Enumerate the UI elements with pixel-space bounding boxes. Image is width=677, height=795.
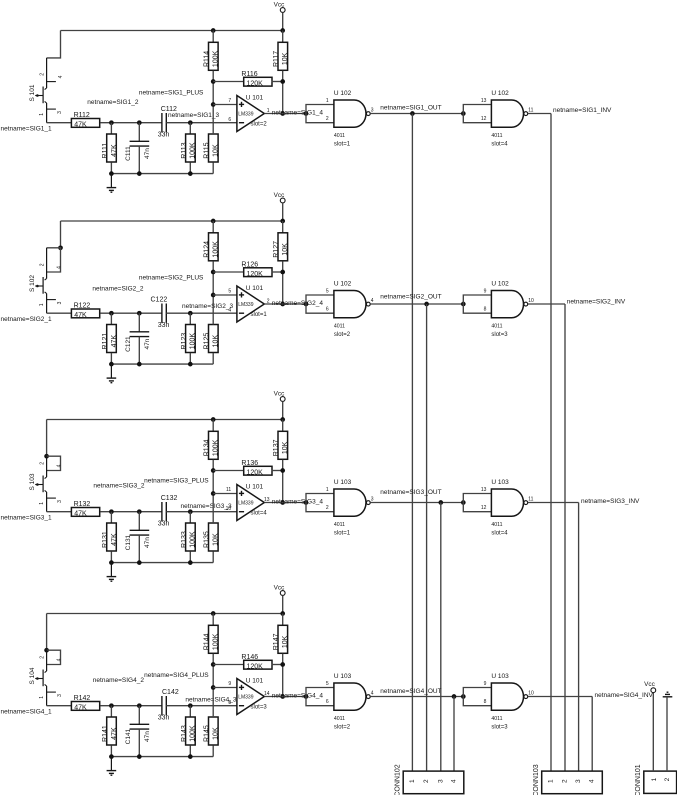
svg-text:netname=SIG2_PLUS: netname=SIG2_PLUS [139, 275, 204, 282]
svg-text:R141: R141 [102, 725, 109, 742]
wire [272, 664, 283, 666]
resistor R134 [204, 431, 220, 459]
junction [58, 245, 63, 250]
svg-text:100K: 100K [190, 142, 197, 159]
net SIG1_2 wire [100, 122, 162, 124]
svg-text:3: 3 [57, 301, 63, 304]
svg-text:R127: R127 [273, 241, 280, 258]
svg-text:netname=SIG3_INV: netname=SIG3_INV [581, 498, 640, 505]
svg-text:12: 12 [481, 116, 487, 122]
svg-text:10: 10 [226, 506, 232, 512]
svg-text:9: 9 [228, 681, 231, 687]
svg-text:LM339: LM339 [238, 694, 254, 700]
wire [213, 81, 243, 83]
wire [189, 706, 191, 717]
junction [280, 302, 285, 307]
net SIG3_INV vertical wire [578, 503, 580, 772]
svg-text:47K: 47K [74, 511, 87, 518]
svg-text:11: 11 [226, 487, 231, 493]
wire divider [212, 654, 214, 717]
svg-text:3: 3 [57, 111, 63, 114]
junction [137, 754, 142, 759]
wire pin2-pin4 loop [47, 248, 61, 272]
wire [212, 31, 214, 43]
junction [137, 120, 142, 125]
svg-text:netname=SIG4_PLUS: netname=SIG4_PLUS [144, 672, 209, 679]
svg-text:slot=2: slot=2 [334, 725, 351, 731]
wire pull-up [282, 261, 284, 304]
net SIG4_2 wire [100, 705, 162, 707]
svg-text:R115: R115 [204, 142, 211, 158]
svg-text:1: 1 [39, 303, 45, 306]
svg-text:2: 2 [664, 777, 671, 781]
svg-text:10: 10 [528, 298, 534, 304]
junction [211, 79, 216, 84]
power Vcc rail row3 [274, 391, 285, 420]
net SIG2_OUT vertical wire [426, 304, 428, 771]
svg-text:R111: R111 [102, 143, 109, 159]
nand gate U 103 slot=3 [491, 673, 527, 731]
resistor R116 [241, 71, 272, 88]
ground (flipped) [663, 692, 673, 697]
resistor R143 [181, 717, 197, 745]
svg-text:13: 13 [481, 98, 487, 104]
svg-text:2: 2 [40, 656, 46, 659]
svg-text:netname=SIG3_1: netname=SIG3_1 [1, 515, 53, 522]
svg-text:R116: R116 [241, 71, 257, 78]
svg-text:1: 1 [548, 779, 555, 783]
resistor R133 [181, 523, 197, 551]
svg-text:33n: 33n [158, 132, 170, 139]
svg-text:C141: C141 [125, 728, 132, 744]
svg-text:R143: R143 [181, 725, 188, 742]
svg-text:4011: 4011 [334, 323, 345, 329]
wire [110, 162, 112, 173]
ground [107, 757, 117, 776]
resistor R113 [181, 134, 197, 162]
power Vcc CONN101 [644, 681, 656, 692]
wire gate input split [463, 105, 491, 123]
svg-text:R147: R147 [273, 633, 280, 650]
net SIG2_OUT wire [370, 303, 463, 305]
wire rail to switch [60, 221, 62, 248]
svg-text:R145: R145 [204, 725, 211, 742]
svg-text:R114: R114 [204, 51, 211, 67]
junction [109, 703, 114, 708]
wire [272, 271, 283, 273]
svg-text:C131: C131 [125, 534, 132, 550]
svg-text:10K: 10K [213, 533, 220, 546]
capacitor C132 [158, 495, 178, 527]
wire [189, 353, 191, 364]
wire [110, 123, 112, 134]
wire Vcc top rail [61, 30, 283, 32]
svg-text:S 101: S 101 [29, 84, 36, 101]
svg-text:47K: 47K [74, 705, 87, 712]
svg-text:4011: 4011 [491, 522, 502, 528]
svg-text:3: 3 [437, 779, 444, 783]
svg-text:U 102: U 102 [491, 90, 509, 97]
junction [211, 611, 216, 616]
svg-text:4: 4 [371, 298, 374, 304]
svg-text:R135: R135 [204, 531, 211, 548]
op-amp U101 LM339 [237, 678, 267, 715]
op-amp U101 LM339 [237, 95, 267, 132]
junction [109, 120, 114, 125]
junction [452, 694, 457, 699]
junction [410, 111, 415, 116]
net SIG2_INV wire [528, 303, 565, 305]
resistor R145 [204, 717, 220, 745]
junction [211, 662, 216, 667]
wire gate input split [463, 688, 491, 706]
svg-text:R124: R124 [204, 241, 211, 258]
svg-text:netname=SIG1_1: netname=SIG1_1 [1, 126, 53, 133]
svg-text:LM339: LM339 [238, 302, 254, 308]
svg-text:4011: 4011 [334, 522, 345, 528]
net SIG4_OUT wire [370, 696, 463, 698]
svg-text:120K: 120K [247, 663, 264, 670]
svg-text:120K: 120K [247, 469, 264, 476]
svg-text:C122: C122 [151, 297, 168, 304]
wire [110, 706, 112, 717]
svg-text:33n: 33n [158, 521, 170, 528]
svg-text:netname=SIG3_3: netname=SIG3_3 [181, 503, 233, 510]
net SIG2_INV vertical wire [564, 304, 566, 771]
switch S102 [29, 248, 63, 313]
resistor R147 [273, 625, 289, 653]
svg-text:U 102: U 102 [491, 281, 509, 288]
op-amp U101 LM339 [237, 484, 267, 521]
wire gate input split [463, 494, 491, 512]
svg-text:U 101: U 101 [246, 285, 264, 292]
resistor R135 [204, 523, 220, 551]
svg-text:netname=SIG2_4: netname=SIG2_4 [272, 300, 324, 307]
junction [304, 302, 309, 307]
net SIG1_PLUS wire [213, 104, 237, 106]
wire [652, 693, 654, 772]
junction [211, 219, 216, 224]
svg-text:netname=SIG3_OUT: netname=SIG3_OUT [380, 489, 441, 496]
net SIG1_OUT vertical wire [411, 114, 413, 772]
wire pull-up [282, 460, 284, 503]
resistor R115 [204, 134, 220, 162]
svg-text:netname=SIG1_INV: netname=SIG1_INV [553, 107, 612, 114]
resistor R111 [102, 134, 118, 162]
capacitor C141 [125, 706, 151, 757]
wire [282, 221, 284, 233]
svg-text:4: 4 [371, 691, 374, 697]
power Vcc rail row4 [274, 585, 285, 614]
wire pin2-pin4 loop [47, 650, 61, 664]
svg-text:2: 2 [40, 73, 46, 76]
connector CONN101 [635, 764, 677, 795]
svg-text:CONN103: CONN103 [533, 764, 540, 795]
junction [280, 270, 285, 275]
svg-text:netname=SIG3_2: netname=SIG3_2 [93, 483, 145, 490]
svg-text:netname=SIG2_3: netname=SIG2_3 [182, 303, 234, 310]
wire divider [212, 460, 214, 523]
wire [212, 221, 214, 233]
svg-text:CONN102: CONN102 [395, 764, 402, 795]
svg-text:100K: 100K [213, 241, 220, 258]
svg-text:S 103: S 103 [29, 473, 36, 490]
svg-text:3: 3 [371, 497, 374, 503]
svg-text:10K: 10K [213, 727, 220, 740]
svg-text:U 103: U 103 [491, 673, 509, 680]
svg-text:33n: 33n [158, 322, 170, 329]
svg-text:10: 10 [528, 691, 534, 697]
svg-text:8: 8 [228, 700, 231, 706]
svg-text:47K: 47K [111, 335, 118, 348]
wire [213, 664, 243, 666]
ground [107, 364, 117, 383]
svg-text:R146: R146 [241, 654, 258, 661]
svg-text:netname=SIG4_4: netname=SIG4_4 [272, 692, 324, 699]
junction [461, 500, 466, 505]
svg-text:C142: C142 [162, 689, 179, 696]
svg-text:2: 2 [326, 505, 329, 511]
nand gate U 102 slot=4 [491, 90, 527, 148]
power Vcc rail row2 [274, 192, 285, 221]
svg-text:4: 4 [56, 658, 62, 661]
wire pull-up [282, 71, 284, 114]
net SIG3_PLUS wire [213, 493, 237, 495]
svg-text:U 102: U 102 [334, 90, 352, 97]
junction [304, 694, 309, 699]
junction [188, 509, 193, 514]
svg-text:120K: 120K [247, 80, 264, 87]
wire [272, 470, 283, 472]
svg-text:netname=SIG2_1: netname=SIG2_1 [1, 316, 53, 323]
svg-text:1: 1 [326, 98, 329, 104]
svg-text:9: 9 [484, 681, 487, 687]
svg-text:4: 4 [58, 75, 64, 78]
resistor R136 [241, 460, 272, 477]
net SIG4_INV vertical wire [591, 697, 593, 772]
resistor R137 [273, 431, 289, 459]
net SIG2_2 wire [100, 312, 162, 314]
svg-text:slot=3: slot=3 [491, 725, 508, 731]
resistor R141 [102, 717, 118, 745]
wire gate input split [463, 295, 491, 313]
net SIG2_3 wire [166, 312, 237, 314]
wire [110, 353, 112, 364]
svg-text:10K: 10K [282, 635, 289, 648]
svg-text:1: 1 [409, 779, 416, 783]
svg-text:netname=SIG1_3: netname=SIG1_3 [168, 112, 220, 119]
svg-text:netname=SIG2_INV: netname=SIG2_INV [567, 299, 626, 306]
wire [213, 271, 243, 273]
svg-text:netname=SIG3_4: netname=SIG3_4 [272, 498, 324, 505]
svg-text:47n: 47n [144, 731, 151, 742]
switch S104 [29, 650, 63, 706]
svg-text:5: 5 [326, 681, 329, 687]
svg-text:11: 11 [528, 108, 533, 114]
wire [110, 745, 112, 756]
svg-text:8: 8 [484, 306, 487, 312]
net SIG1_3 wire [166, 122, 237, 124]
wire pull-up [282, 654, 284, 697]
wire [272, 81, 283, 83]
junction [188, 171, 193, 176]
svg-text:R131: R131 [102, 531, 109, 548]
svg-text:4: 4 [589, 779, 596, 783]
svg-text:6: 6 [326, 699, 329, 705]
svg-text:S 102: S 102 [29, 275, 36, 292]
svg-text:slot=1: slot=1 [334, 142, 351, 148]
svg-text:C111: C111 [125, 146, 132, 161]
resistor R131 [102, 523, 118, 551]
svg-text:8: 8 [484, 699, 487, 705]
junction [211, 270, 216, 275]
wire ground rail [111, 173, 213, 175]
svg-text:4011: 4011 [491, 716, 502, 722]
svg-text:4: 4 [56, 266, 62, 269]
net SIG1_INV vertical wire [550, 114, 552, 772]
svg-text:2: 2 [40, 462, 46, 465]
svg-text:U 101: U 101 [246, 484, 264, 491]
capacitor C112 [158, 106, 177, 138]
svg-text:C121: C121 [125, 336, 132, 352]
svg-text:2: 2 [40, 263, 46, 266]
junction [137, 703, 142, 708]
svg-text:47n: 47n [144, 148, 151, 159]
junction [44, 648, 49, 653]
wire [110, 512, 112, 523]
junction [280, 111, 285, 116]
svg-text:R112: R112 [74, 112, 90, 119]
svg-text:R142: R142 [74, 695, 91, 702]
svg-text:13: 13 [481, 487, 487, 493]
junction [109, 754, 114, 759]
svg-text:U 101: U 101 [246, 678, 264, 685]
svg-text:9: 9 [484, 288, 487, 294]
wire divider [212, 261, 214, 324]
wire gate input split [306, 295, 334, 313]
svg-text:R137: R137 [273, 439, 280, 456]
wire [212, 614, 214, 626]
junction [461, 694, 466, 699]
net SIG1_4 wire [264, 113, 306, 115]
junction [188, 362, 193, 367]
wire ground rail [111, 363, 213, 365]
junction [280, 611, 285, 616]
connector CONN103 [533, 764, 602, 795]
nand gate U 102 slot=1 [334, 90, 370, 148]
capacitor C121 [125, 313, 151, 364]
svg-text:10K: 10K [282, 243, 289, 256]
svg-text:3: 3 [371, 108, 374, 114]
svg-text:33n: 33n [158, 715, 170, 722]
junction [188, 120, 193, 125]
wire [189, 512, 191, 523]
svg-text:3: 3 [575, 779, 582, 783]
svg-text:10K: 10K [282, 441, 289, 454]
svg-text:4: 4 [228, 307, 231, 313]
junction [211, 293, 216, 298]
svg-text:netname=SIG2_OUT: netname=SIG2_OUT [380, 294, 441, 301]
svg-text:2: 2 [423, 779, 430, 783]
net SIG4_1 wire [47, 705, 71, 707]
svg-text:R133: R133 [181, 531, 188, 548]
junction [109, 509, 114, 514]
svg-text:slot=4: slot=4 [491, 142, 508, 148]
svg-text:6: 6 [228, 117, 231, 123]
svg-text:12: 12 [481, 505, 487, 511]
wire Vcc top rail [47, 419, 283, 421]
net SIG3_4 wire [264, 502, 306, 504]
nand gate U 102 slot=2 [334, 281, 370, 339]
svg-text:netname=SIG4_2: netname=SIG4_2 [93, 677, 145, 684]
svg-text:netname=SIG4_OUT: netname=SIG4_OUT [380, 688, 441, 695]
svg-text:slot=1: slot=1 [251, 312, 268, 318]
junction [461, 302, 466, 307]
svg-text:4: 4 [56, 464, 62, 467]
svg-text:100K: 100K [213, 50, 220, 67]
junction [438, 500, 443, 505]
junction [211, 685, 216, 690]
resistor R125 [204, 325, 220, 353]
junction [280, 219, 285, 224]
wire gate input split [306, 688, 334, 706]
net SIG4_3 wire [166, 705, 237, 707]
junction [188, 560, 193, 565]
svg-text:3: 3 [57, 694, 63, 697]
svg-text:netname=SIG4_INV: netname=SIG4_INV [595, 692, 654, 699]
svg-text:netname=SIG1_2: netname=SIG1_2 [87, 99, 139, 106]
net SIG4_4 wire [264, 696, 306, 698]
svg-text:3: 3 [57, 500, 63, 503]
wire [282, 31, 284, 43]
wire [110, 551, 112, 562]
net SIG1_OUT wire [370, 113, 463, 115]
svg-text:R136: R136 [241, 460, 258, 467]
junction [188, 703, 193, 708]
junction [211, 28, 216, 33]
svg-text:100K: 100K [213, 633, 220, 650]
wire [189, 123, 191, 134]
junction [188, 311, 193, 316]
wire [212, 420, 214, 432]
wire rail to switch [46, 420, 48, 457]
svg-text:R132: R132 [74, 501, 91, 508]
capacitor C142 [158, 689, 179, 721]
capacitor C122 [151, 297, 170, 329]
svg-text:47n: 47n [144, 537, 151, 548]
net SIG3_OUT vertical wire [440, 503, 442, 772]
net SIG3_OUT wire [370, 502, 463, 504]
svg-text:R125: R125 [204, 333, 211, 350]
net SIG3_3 wire [166, 511, 237, 513]
svg-text:100K: 100K [213, 439, 220, 456]
junction [211, 468, 216, 473]
svg-text:U 103: U 103 [334, 673, 352, 680]
junction [304, 500, 309, 505]
wire Vcc top rail [47, 613, 283, 615]
resistor R121 [102, 325, 118, 353]
svg-text:netname=SIG1_4: netname=SIG1_4 [272, 109, 324, 116]
wire pin2-pin4 loop [47, 456, 61, 470]
svg-text:4011: 4011 [334, 133, 345, 139]
nand gate U 102 slot=3 [491, 281, 527, 339]
resistor R127 [273, 233, 289, 261]
wire [189, 162, 191, 173]
svg-text:4011: 4011 [334, 716, 345, 722]
op-amp U101 LM339 [237, 285, 267, 322]
junction [280, 662, 285, 667]
nand gate U 103 slot=1 [334, 479, 370, 537]
